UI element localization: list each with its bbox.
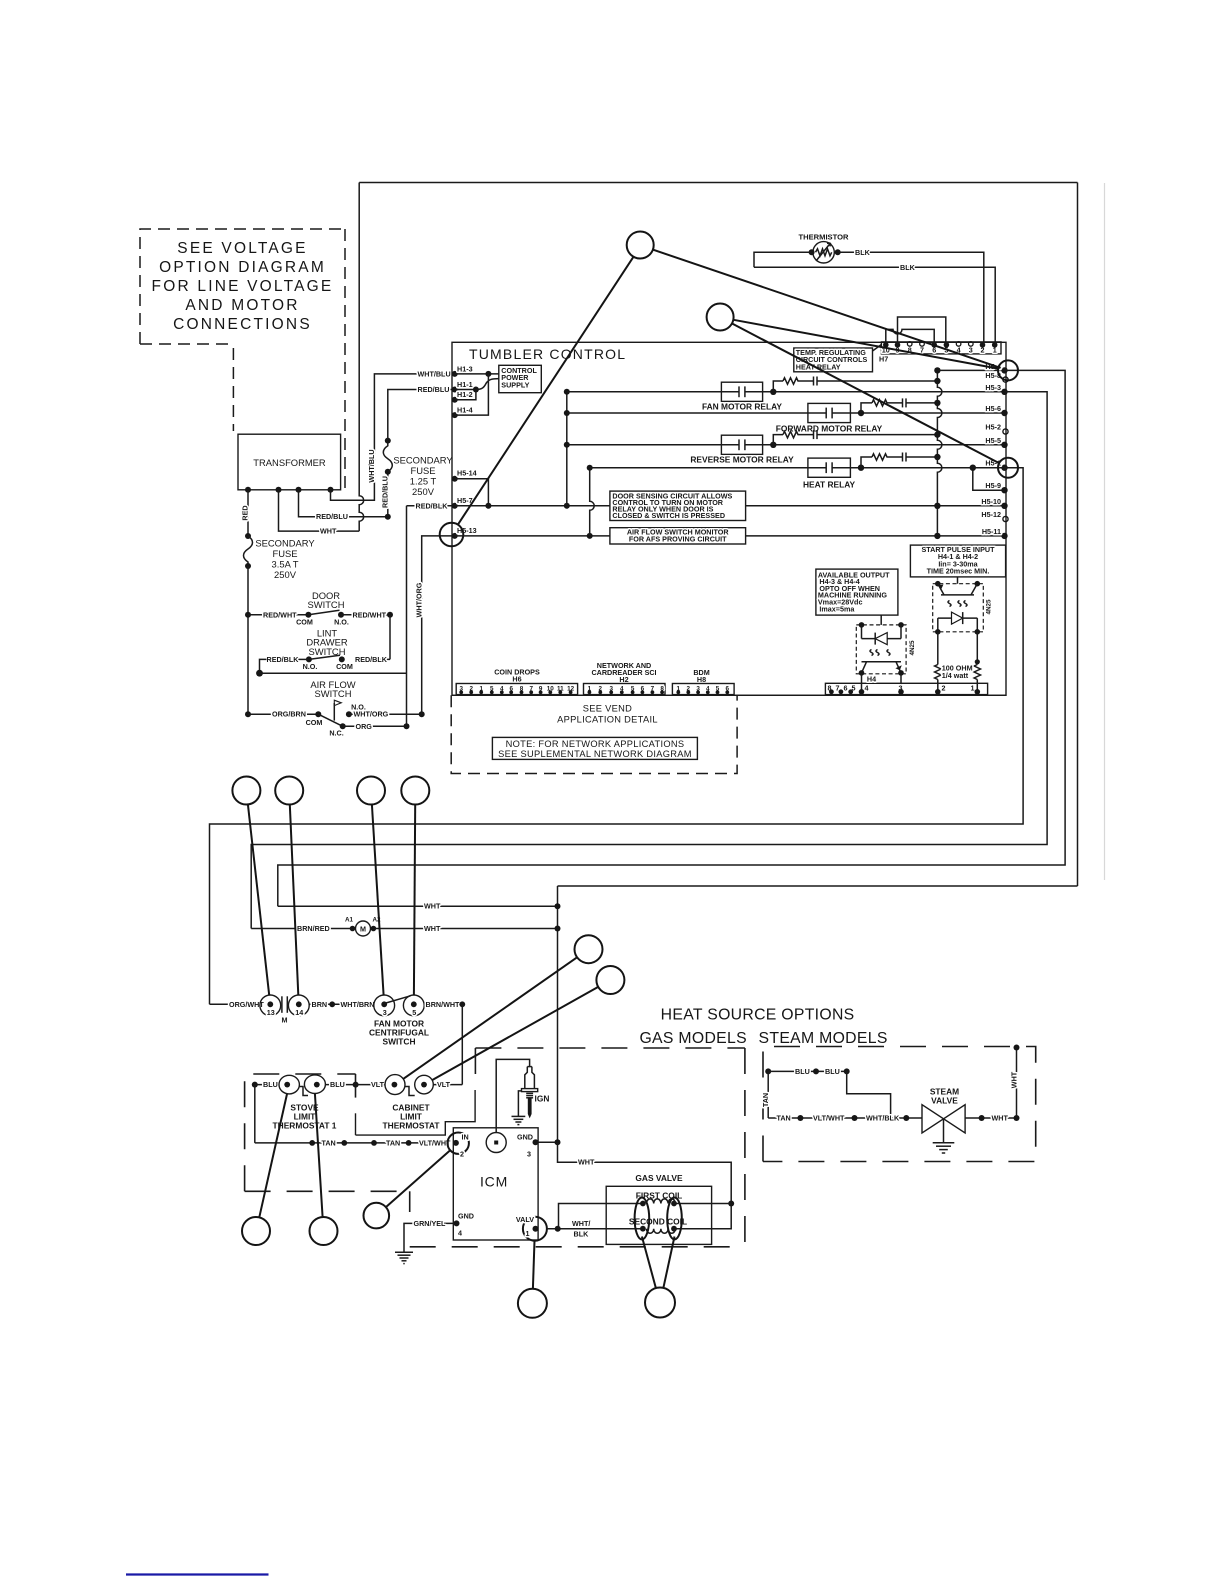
svg-text:SUPPLY: SUPPLY [501, 380, 529, 389]
wire: H5-3 route to motor BRN/RED rail [251, 392, 1047, 929]
gas models dashed box [475, 1047, 745, 1049]
svg-text:GAS VALVE: GAS VALVE [635, 1173, 683, 1183]
tumbler control box U0 [452, 342, 1006, 695]
wire: inner right bus with hops [937, 370, 942, 536]
gas valve first coil L1 [640, 1201, 646, 1207]
svg-text:VALV: VALV [516, 1215, 534, 1224]
text: FAN MOTOR CENTRIFUGAL SWITCH [369, 1019, 429, 1047]
dashed see-vend box [451, 695, 737, 773]
svg-text:WHT/BLU: WHT/BLU [367, 449, 376, 482]
wire: H1-4 joins H1-3 [455, 374, 489, 415]
door switch blade [308, 610, 339, 615]
wire: left rail below 3.5A fuse [247, 566, 249, 714]
svg-text:H8: H8 [697, 675, 706, 684]
svg-text:FORWARD MOTOR RELAY: FORWARD MOTOR RELAY [776, 424, 883, 434]
svg-text:BRN/WHT: BRN/WHT [426, 1000, 461, 1009]
svg-text:FOR AFS PROVING CIRCUIT: FOR AFS PROVING CIRCUIT [629, 535, 727, 544]
svg-text:WHT/ORG: WHT/ORG [414, 582, 423, 617]
svg-text:WHT: WHT [1010, 1071, 1019, 1088]
svg-text:CONNECTIONS: CONNECTIONS [173, 316, 312, 333]
svg-text:GRN/YEL: GRN/YEL [414, 1219, 447, 1228]
wire: RED/BLK drop from H5-7 [406, 506, 408, 727]
svg-text:STEAM MODELS: STEAM MODELS [759, 1030, 888, 1047]
leads to H4-4 and H4-3 [861, 674, 863, 692]
switch blade 3 to 5 [384, 996, 410, 1004]
photon marks [870, 650, 873, 656]
optocoupler U2 4N25 (available output) [856, 625, 906, 674]
svg-text:TAN: TAN [761, 1093, 770, 1107]
wire: RED lead from transformer to secondary fuse [247, 490, 249, 536]
connector H5-7 pin [452, 503, 458, 509]
svg-text:RED/BLK: RED/BLK [416, 501, 449, 510]
svg-text:N.C.: N.C. [329, 729, 343, 738]
temp regulating note box [794, 348, 873, 372]
svg-text:BLK: BLK [855, 248, 871, 257]
svg-text:VALVE: VALVE [931, 1096, 958, 1106]
svg-text:H1-3: H1-3 [457, 364, 473, 373]
wire: H7-10 loop to H7-6 with hop [886, 329, 934, 345]
svg-text:TAN: TAN [322, 1138, 336, 1147]
wire: stove feed drop to TAN row [254, 1085, 256, 1143]
callout circle J [518, 1289, 547, 1318]
ignitor IGN spark plug [525, 1067, 528, 1089]
relay K1 box [721, 382, 762, 401]
svg-text:REVERSE MOTOR RELAY: REVERSE MOTOR RELAY [690, 455, 794, 465]
centrifugal switch terminal 5 [403, 995, 424, 1016]
svg-text:SECOND COIL: SECOND COIL [629, 1216, 687, 1226]
svg-text:WHT/BLK: WHT/BLK [866, 1114, 900, 1123]
ignitor ground [518, 1091, 521, 1117]
optocoupler U3 4N25 (start pulse) [933, 584, 984, 632]
photon marks [948, 601, 951, 607]
wire: WHT/BLU from transformer terminal 4 to H1-3 [331, 374, 455, 500]
svg-text:CLOSED & SWITCH IS PRESSED: CLOSED & SWITCH IS PRESSED [612, 511, 725, 520]
svg-text:RED/BLK: RED/BLK [267, 655, 300, 664]
wire: thermistor BLK row 1 to H7-2 [838, 252, 984, 345]
svg-text:H4: H4 [867, 675, 876, 684]
N.C. contact ORG [343, 725, 407, 727]
wire: H5-7 row to door sensing and H5-10 [455, 505, 1005, 507]
steam models dashed box [763, 1047, 1036, 1162]
svg-text:WHT: WHT [320, 527, 337, 536]
wire: H1-2 joins H1-1 [455, 390, 476, 400]
ICM pin GND 4 [454, 1220, 460, 1226]
svg-text:H5-9: H5-9 [985, 481, 1001, 490]
wire: H5-4 row from bus to pin [937, 369, 1004, 371]
stove limit thermostat TS1 terminals [279, 1075, 299, 1094]
svg-text:N.O.: N.O. [303, 662, 318, 671]
svg-text:H6: H6 [512, 675, 521, 684]
resistor-capacitor snubber for K2 [861, 403, 872, 413]
svg-text:4N25: 4N25 [909, 640, 916, 656]
svg-text:ORG/WHT: ORG/WHT [229, 1000, 264, 1009]
resistor-capacitor snubber for K1 [773, 381, 783, 392]
svg-text:BLU: BLU [795, 1067, 810, 1076]
resistor R1 100 OHM 1/4 watt [937, 632, 939, 665]
svg-text:H1-2: H1-2 [457, 390, 473, 399]
svg-text:250V: 250V [274, 569, 297, 580]
svg-text:RED/WHT: RED/WHT [263, 610, 297, 619]
diode D2 pointing left [862, 638, 902, 640]
svg-text:VLT: VLT [437, 1080, 451, 1089]
centrifugal switch terminal 3 [374, 995, 395, 1016]
svg-text:GAS MODELS: GAS MODELS [639, 1030, 746, 1047]
callout circle I [364, 1203, 390, 1229]
dashed stove thermostat box [245, 1074, 356, 1191]
svg-text:IGN: IGN [535, 1094, 550, 1104]
callout circle H [310, 1217, 338, 1245]
svg-text:AND MOTOR: AND MOTOR [185, 297, 299, 314]
callout circle K [645, 1288, 675, 1318]
svg-text:BLU: BLU [330, 1080, 345, 1089]
TAN row to ICM IN2 [255, 1142, 448, 1144]
fuse F1 SECONDARY FUSE 3.5A squiggle [244, 536, 253, 566]
svg-text:BLU: BLU [825, 1067, 840, 1076]
steam valve row [768, 1117, 922, 1119]
wire: RED/WHT row door switch [245, 612, 251, 618]
svg-text:IN: IN [462, 1133, 469, 1142]
wire: BRN/WHT drop to cabinet thermostat [461, 1004, 463, 1084]
relay K3 reverse motor relay row [567, 444, 1005, 446]
wire: heat-source rect top edge [558, 885, 1078, 887]
steam valve right WHT [965, 1117, 1016, 1119]
wire: ignitor loop to spark plug [496, 1059, 529, 1132]
svg-text:3: 3 [527, 1150, 531, 1159]
air flow switch S3 [310, 679, 355, 699]
svg-text:H1-1: H1-1 [457, 380, 473, 389]
svg-text:TAN: TAN [386, 1138, 400, 1147]
wire: RED/BLK row lint drawer switch [355, 658, 390, 660]
svg-text:COM: COM [306, 718, 323, 727]
transformer T1 box [238, 434, 341, 490]
svg-text:TUMBLER CONTROL: TUMBLER CONTROL [469, 346, 626, 362]
wire: thermistor left loop [754, 252, 812, 267]
svg-text:OPTION DIAGRAM: OPTION DIAGRAM [159, 259, 326, 276]
svg-text:VLT/WHT: VLT/WHT [813, 1114, 845, 1123]
svg-text:RED/BLU: RED/BLU [381, 476, 390, 508]
ICM pin GND 3 [533, 1139, 539, 1145]
dashed stove box bottom continuation [245, 1190, 410, 1192]
svg-text:NOTE: FOR NETWORK APPLICATI: NOTE: FOR NETWORK APPLICATIONS [506, 739, 685, 749]
ICM box U4 [453, 1128, 538, 1240]
svg-text:13: 13 [267, 1008, 275, 1017]
callout circle 1 [627, 232, 654, 259]
dashed box: SEE VOLTAGE OPTION note [140, 229, 345, 344]
svg-text:RED: RED [241, 505, 250, 520]
svg-text:TRANSFORMER: TRANSFORMER [253, 457, 326, 468]
break bars between 13 and 14 [281, 996, 283, 1013]
motor M1 [356, 921, 371, 936]
svg-text:1.25 T: 1.25 T [410, 476, 437, 487]
callout line 1 to H5-13 [458, 256, 634, 524]
callout circle 2 [707, 304, 734, 331]
svg-text:N.O.: N.O. [334, 618, 349, 627]
svg-text:WHT/ORG: WHT/ORG [354, 710, 389, 719]
svg-text:GND: GND [517, 1133, 533, 1142]
wire: H7-9 loop to H7-5 [898, 317, 946, 345]
svg-text:3: 3 [383, 1008, 387, 1017]
connector H4 strip [825, 683, 987, 694]
svg-text:H1-4: H1-4 [457, 406, 473, 415]
leader line from temp box to H7 [873, 345, 882, 352]
svg-text:M: M [282, 1015, 288, 1024]
svg-text:Imax=5ma: Imax=5ma [819, 604, 855, 613]
cabinet limit thermostat row VLT [356, 1084, 385, 1086]
svg-text:VLT/WHT: VLT/WHT [419, 1138, 451, 1147]
svg-text:BLK: BLK [900, 263, 916, 272]
svg-text:H5-10: H5-10 [981, 497, 1001, 506]
wire: H5-1 to H5-9 jumper [973, 468, 1005, 491]
wire: WHT row 1 to frame drop [278, 905, 558, 907]
svg-text:WHT/BLU: WHT/BLU [418, 369, 451, 378]
connector H5-13 pin with callout [452, 533, 458, 539]
diode D3 pointing right [938, 617, 978, 619]
svg-text:RED/WHT: RED/WHT [353, 610, 387, 619]
callout circle C [357, 777, 385, 805]
svg-text:H5-12: H5-12 [981, 510, 1001, 519]
text: SECONDARY FUSE 3.5A T 250V [255, 538, 315, 581]
svg-text:SWITCH: SWITCH [308, 599, 345, 610]
callout circle B [275, 777, 303, 805]
relay K2 forward motor relay row [567, 412, 1005, 414]
svg-text:WHT: WHT [992, 1114, 1009, 1123]
coil terminal ellipses [635, 1198, 650, 1240]
wire: WHT to gas valve first coil [558, 1142, 732, 1228]
wire: outer frame right edge down to heat-source rect [1077, 183, 1079, 887]
wire: H5-4 route to motor WHT rail [278, 370, 1065, 906]
wire: H1-1 junction [455, 389, 476, 391]
svg-text:THERMISTOR: THERMISTOR [798, 233, 849, 242]
connector H5 right-edge pins [1001, 367, 1008, 539]
relay K4 heat relay row [590, 467, 1005, 469]
wire: inner left bus [566, 392, 568, 506]
svg-text:BLK: BLK [574, 1230, 590, 1239]
svg-text:H7: H7 [879, 355, 888, 364]
svg-text:250V: 250V [412, 486, 435, 497]
svg-text:H5-6: H5-6 [985, 404, 1001, 413]
svg-text:A1: A1 [345, 917, 354, 924]
svg-text:1: 1 [526, 1229, 530, 1238]
cabinet limit thermostat TS2 terminals [385, 1075, 405, 1095]
wire: WHT/ORG drop from H5-13 [422, 536, 452, 714]
wire: outer frame left edge with hops at transformer wires [359, 183, 364, 532]
svg-text:H5-5: H5-5 [985, 436, 1001, 445]
control power supply box [499, 365, 542, 392]
gas valve box [606, 1186, 711, 1244]
solid boundary around cabinet thermostat [356, 1090, 476, 1135]
fuse F2 SECONDARY FUSE 1.25T on RED/BLU vertical to H1-1 [387, 472, 389, 517]
svg-text:SECONDARY: SECONDARY [393, 455, 453, 466]
svg-text:2: 2 [942, 684, 946, 693]
steam box internals: BLU row [765, 1068, 771, 1074]
svg-text:1/4 watt: 1/4 watt [942, 671, 969, 680]
svg-text:RED/BLU: RED/BLU [316, 512, 348, 521]
svg-text:SEE VOLTAGE: SEE VOLTAGE [177, 240, 307, 257]
svg-text:HEAT SOURCE OPTIONS: HEAT SOURCE OPTIONS [661, 1007, 855, 1024]
door sensing note box [610, 491, 746, 520]
svg-text:SECONDARY: SECONDARY [255, 538, 315, 549]
ICM ignitor terminal [486, 1133, 506, 1153]
scan artifact faint line [1104, 183, 1106, 880]
wire: vertical joining door N.O. to lint COM [389, 615, 391, 660]
text: SECONDARY FUSE 1.25 T 250V [393, 455, 453, 498]
svg-text:HEAT RELAY: HEAT RELAY [796, 362, 841, 371]
resistor-capacitor snubber for K3 [773, 435, 783, 445]
svg-text:TIME 20msec MIN.: TIME 20msec MIN. [927, 566, 990, 575]
svg-text:ICM: ICM [480, 1174, 508, 1190]
centrifugal switch terminal 14 [288, 995, 309, 1016]
svg-text:H2: H2 [619, 675, 628, 684]
svg-text:6: 6 [844, 684, 848, 693]
svg-text:VLT: VLT [371, 1080, 385, 1089]
svg-text:GND: GND [458, 1212, 474, 1221]
svg-text:M: M [360, 924, 366, 933]
connector H5-14 pin [452, 476, 458, 482]
svg-text:4N25: 4N25 [986, 599, 993, 615]
svg-text:4: 4 [458, 1229, 462, 1238]
available output note box [816, 569, 898, 615]
steam valve V1 bowtie [922, 1105, 965, 1133]
svg-text:FAN MOTOR RELAY: FAN MOTOR RELAY [702, 402, 782, 412]
callout circle A [232, 777, 260, 805]
svg-text:3.5A T: 3.5A T [272, 559, 299, 570]
air flow monitor note box [610, 528, 746, 544]
svg-text:SWITCH: SWITCH [382, 1037, 415, 1047]
svg-text:COM: COM [296, 618, 313, 627]
connector H1 pins [452, 371, 458, 377]
lint drawer switch S2 [306, 628, 348, 657]
callout line 2 to H5-1 [732, 323, 1000, 463]
stove thermostat row BLU [252, 1082, 258, 1088]
wire: first coil left feed [559, 1204, 643, 1229]
wire: WHT drop from heat rect to ICM GND3 [557, 886, 559, 1142]
svg-text:WHT: WHT [578, 1158, 595, 1167]
svg-text:WHT/: WHT/ [572, 1219, 590, 1228]
svg-text:TAN: TAN [777, 1114, 791, 1123]
wire: heat relay feed vertical with hop over H5-7 row [590, 468, 595, 536]
callout line 1 to H5-4 [653, 250, 998, 368]
phototransistor Q [862, 661, 902, 663]
callout circle E [575, 935, 603, 963]
gas valve second coil L2 [640, 1226, 646, 1232]
svg-text:COM: COM [336, 662, 353, 671]
connector H7 strip [881, 342, 1001, 354]
wire: junction row to H5-7 net [260, 672, 407, 674]
wire: BLU step down to valve row [847, 1071, 891, 1118]
callout circle F [596, 966, 624, 994]
ground symbol below GRN/YEL [395, 1251, 413, 1253]
wire: RED/BLU from transformer terminal 3 [299, 490, 388, 517]
transformer terminal dots [245, 487, 251, 493]
svg-text:WHT/BRN: WHT/BRN [341, 1000, 375, 1009]
svg-text:BLU: BLU [263, 1080, 278, 1089]
wire: H5-13 row to H5-11 [455, 535, 1005, 537]
svg-text:H5-3: H5-3 [985, 383, 1001, 392]
start pulse input note box [910, 545, 1005, 577]
svg-text:WHT: WHT [424, 924, 441, 933]
resistor-capacitor snubber for K4 [861, 457, 872, 468]
network note box [492, 737, 697, 759]
svg-text:HEAT RELAY: HEAT RELAY [803, 480, 856, 490]
steam valve ground [943, 1119, 945, 1143]
centrifugal switch terminal 13 [210, 1003, 260, 1005]
svg-text:H5-11: H5-11 [982, 527, 1001, 536]
wire: BLK row 2 to H7-1 [754, 267, 995, 345]
callout circle H5-1 [998, 458, 1018, 478]
blue footer line [126, 1573, 269, 1575]
callout circle H5-4 [998, 360, 1018, 380]
svg-text:APPLICATION DETAIL: APPLICATION DETAIL [557, 715, 658, 725]
air flow switch blade and flag [318, 714, 342, 726]
svg-text:BRN/RED: BRN/RED [297, 924, 330, 933]
transistor with emitter arrow [941, 594, 974, 596]
svg-text:H5-14: H5-14 [457, 469, 477, 478]
svg-text:SEE VEND: SEE VEND [583, 704, 632, 714]
wire: WHT from transformer terminal 2 [279, 490, 360, 531]
text: SEE VOLTAGE OPTION DIAGRAM FOR LINE VOLTAGE AND MOTOR CONNECTIONS [152, 240, 334, 333]
relay K1 fan motor relay row [567, 391, 1005, 393]
motor M1 row [251, 928, 352, 930]
svg-text:ORG/BRN: ORG/BRN [272, 710, 306, 719]
wire: RED/BLK label from H5-7 [407, 505, 453, 507]
callout circle G [242, 1217, 270, 1245]
wire: outer frame top edge (WHT net) [359, 182, 1077, 184]
svg-text:RED/BLK: RED/BLK [355, 655, 388, 664]
svg-text:THERMOSTAT 1: THERMOSTAT 1 [273, 1121, 337, 1131]
wire: TAN drop [767, 1071, 769, 1118]
svg-text:2: 2 [460, 1150, 464, 1159]
svg-text:H5-2: H5-2 [985, 423, 1001, 432]
ICM pin IN 2 with callout [453, 1140, 459, 1146]
svg-text:ORG: ORG [356, 722, 373, 731]
svg-text:WHT: WHT [424, 902, 441, 911]
svg-text:SEE SUPLEMENTAL NETWORK DIA: SEE SUPLEMENTAL NETWORK DIAGRAM [498, 749, 692, 759]
wire: H5-1 route right-down-left to motor switch rail [210, 468, 1024, 1005]
svg-text:THERMOSTAT: THERMOSTAT [383, 1121, 441, 1131]
svg-text:SWITCH: SWITCH [315, 688, 352, 699]
svg-text:FUSE: FUSE [410, 465, 435, 476]
wire: H1-3 into control power supply [455, 373, 499, 375]
svg-text:H5-7: H5-7 [457, 496, 473, 505]
callout circle D [401, 777, 429, 805]
callout line 2 to H5-4 [733, 320, 998, 369]
svg-text:5: 5 [412, 1008, 416, 1017]
svg-text:FUSE: FUSE [272, 548, 297, 559]
svg-text:14: 14 [295, 1008, 303, 1017]
resistor R2 100 OHM 1/4 watt [976, 632, 978, 665]
ICM pin VALV 1 with callout [533, 1226, 539, 1232]
tumbler box bottom edge [452, 694, 1006, 696]
svg-text:1: 1 [971, 684, 975, 693]
svg-text:BRN: BRN [312, 1000, 328, 1009]
svg-text:4: 4 [865, 684, 869, 693]
svg-text:RED/BLU: RED/BLU [418, 385, 450, 394]
door switch S1 [308, 590, 345, 610]
svg-text:FOR LINE VOLTAGE: FOR LINE VOLTAGE [152, 278, 334, 295]
